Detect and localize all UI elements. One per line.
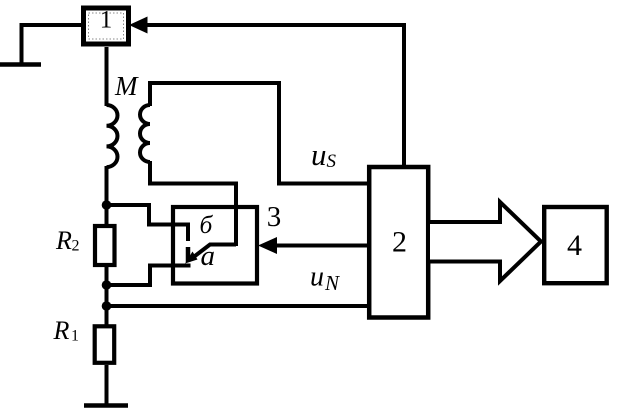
wire secondary bottom to switch arm <box>150 161 236 246</box>
svg-text:2: 2 <box>72 238 80 255</box>
block arrow output (hollow arrow) <box>430 202 541 281</box>
node A (junction) <box>102 200 112 210</box>
switch box 3 <box>173 207 257 284</box>
wire block 2 to switch control <box>275 244 367 248</box>
ground (bottom) <box>84 403 128 408</box>
svg-text:1: 1 <box>71 328 79 345</box>
wire ground to block 1 <box>22 25 82 65</box>
svg-text:3: 3 <box>267 201 282 233</box>
block 2 (compensator) <box>369 167 428 318</box>
arrowhead into switch box 3 <box>258 237 277 254</box>
svg-text:1: 1 <box>100 7 113 34</box>
switch arm with wiper arrowhead <box>185 245 236 264</box>
svg-text:M: M <box>114 71 139 101</box>
wire secondary top to block 2 (uS input) <box>150 83 367 184</box>
svg-text:б: б <box>200 210 214 239</box>
svg-text:2: 2 <box>392 226 407 259</box>
resistor R2 <box>95 226 115 265</box>
wire block 1 to primary winding <box>105 47 109 106</box>
wire R1 to ground <box>105 365 109 404</box>
svg-text:R: R <box>53 316 70 345</box>
wire node B to contact a <box>107 266 191 286</box>
svg-text:R: R <box>55 226 72 255</box>
wire primary to node A <box>105 166 109 227</box>
svg-text:а: а <box>201 240 216 272</box>
wire node A to contact b <box>107 205 189 241</box>
node C (uN tap junction) <box>102 301 112 311</box>
node B (junction) <box>102 280 112 290</box>
inductor secondary winding <box>140 105 150 162</box>
inductor primary winding <box>107 105 118 167</box>
arrowhead into block 1 <box>129 17 148 34</box>
block 4 (indicator) <box>544 207 607 283</box>
wire feedback from block 2 to block 1 <box>147 25 404 165</box>
contact a terminal tick <box>186 247 191 262</box>
block 1 (null indicator) <box>84 7 129 45</box>
ground (top left) <box>0 62 41 67</box>
resistor R1 <box>95 326 115 363</box>
wire uN node C to block 2 <box>107 304 368 308</box>
wire R2 to R1 <box>105 266 109 326</box>
svg-text:4: 4 <box>567 229 582 262</box>
